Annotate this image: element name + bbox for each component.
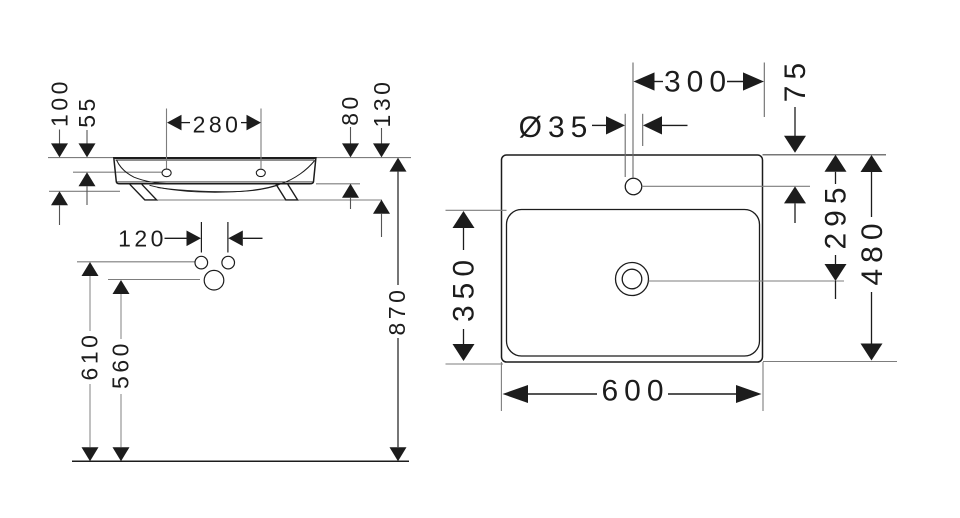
dim 280 left arrow [167,115,182,131]
right rim bottom reference line [316,183,360,185]
drain leader line [649,280,845,282]
floor line [72,460,409,462]
svg-text:600: 600 [601,375,669,408]
svg-text:610: 610 [77,332,103,381]
dim 300 left tick [632,63,634,178]
dim 295 bottom arrow [825,264,847,281]
tap hole height reference line [73,171,163,173]
bowl underside main curve [150,184,282,193]
dim 35 leader right [662,124,688,126]
bottom right extension line [763,361,897,363]
dim 80 lower arrow [342,184,359,198]
left leg [130,184,157,200]
dim 480 top arrow [861,155,883,172]
dim 130 lower arrow [373,200,390,214]
leg bottom reference line [146,199,382,201]
rim bottom inner line [117,181,314,183]
dim 280 extension line left [166,109,168,169]
dim 610 top arrow [82,262,99,276]
dim 600 right extension line [762,362,764,411]
top right extension line [763,154,887,156]
tap hole leader line [642,185,810,187]
dim 100 lower arrow [51,191,68,205]
drain hole [204,270,224,290]
dim 560 bottom arrow [113,447,130,461]
dim 600 right arrow [736,385,762,403]
dim 35 left tick [624,114,626,177]
drain inner circle [622,269,642,289]
dim 80 upper arrow [350,127,352,144]
svg-text:100: 100 [46,78,72,127]
dim 350 line [463,228,465,250]
dim 300 right arrow [743,72,764,90]
dim 75 upper arrow [794,107,796,136]
far rim sweep curve right corner [282,161,315,184]
svg-text:120: 120 [118,226,167,252]
dim 100 upper arrow [59,130,61,145]
dim 300 right tick [763,63,765,118]
supply connection hole left [195,256,208,269]
drain outer circle [616,263,649,296]
dim 120 right-pointing arrow [187,231,202,247]
washbasin rim top edge [114,157,317,159]
supply connection height reference line [77,261,195,263]
dim 35 right tick [642,114,644,146]
dim 610 line [89,276,91,331]
dim 350 bottom arrow [453,344,475,361]
svg-text:Ø35: Ø35 [519,111,594,144]
dim 300 left arrow [634,72,655,90]
right leg [276,184,298,200]
top view inner bowl [507,210,760,357]
dim 480 bottom arrow [861,344,883,361]
svg-text:480: 480 [856,217,889,285]
dim 870 top arrow [390,158,407,172]
dim 35 right-pointing arrow [606,116,625,134]
svg-text:300: 300 [664,66,732,99]
dim 560 line [120,294,122,339]
dim 295 line [835,172,837,184]
dim 75 lower arrow [784,186,806,203]
dim 600 left extension line [500,362,502,411]
inner bowl left wall curve [117,160,170,184]
dim 120 right tick [227,222,229,253]
svg-text:560: 560 [108,340,134,389]
dim 35 leader left [592,124,606,126]
wall reference line [48,157,411,159]
dim 280 extension line right [260,109,262,169]
bowl bottom extension line [446,363,504,365]
svg-text:75: 75 [779,57,812,102]
dim 35 left-pointing arrow [643,116,662,134]
svg-text:55: 55 [74,95,100,128]
dim 600 left arrow [503,385,529,403]
svg-text:80: 80 [337,93,363,126]
dim 350 top arrow [453,211,475,228]
svg-text:350: 350 [448,254,481,322]
dim 600 line [528,393,597,395]
rim top inner line [116,159,315,161]
bowl top extension line [446,209,507,211]
dim 120 left-pointing arrow [228,231,243,247]
right fixing hole [256,169,265,176]
washbasin side view rim band [114,158,316,184]
left fixing hole [162,169,171,177]
svg-text:870: 870 [384,287,410,336]
dim 120 line right [243,237,263,239]
bowl underside secondary curve [158,185,279,192]
dim 560 top arrow [113,280,130,294]
dim 480 line [871,172,873,217]
svg-text:280: 280 [193,112,242,138]
dim 130 upper arrow [381,128,383,144]
dim 120 left tick [200,222,202,253]
dim 610 bottom arrow [82,447,99,461]
dim 55 upper arrow [86,130,88,144]
tap hole [625,178,642,195]
drain height reference line [108,279,200,281]
top view outer rim [502,155,763,362]
dim 295 top arrow [825,155,847,172]
dim 120 line left [165,237,188,239]
supply connection hole right [222,256,235,269]
dim 870 line [397,172,399,285]
dim 55 lower arrow [79,172,96,186]
dim 280 line [182,122,247,124]
dim 300 line [654,81,744,83]
svg-text:295: 295 [820,181,853,249]
dim 280 right arrow [247,115,262,131]
basin underside reference line [49,190,120,192]
svg-text:130: 130 [369,79,395,128]
dim 870 bottom arrow [390,447,407,461]
